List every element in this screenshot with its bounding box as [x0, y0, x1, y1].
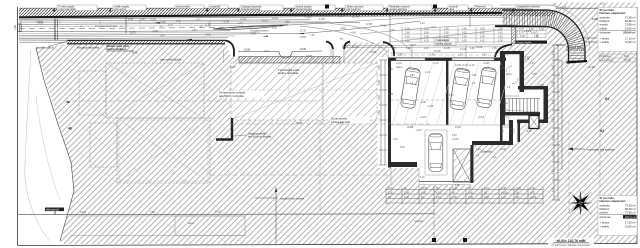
svg-text:2,80: 2,80 [192, 30, 197, 32]
svg-text:6,00: 6,00 [462, 39, 467, 42]
svg-text:+0,15: +0,15 [523, 58, 530, 61]
svg-text:2,35: 2,35 [468, 196, 473, 199]
left border line [17, 7, 19, 246]
entry labels [481, 73, 513, 154]
svg-text:4,25: 4,25 [160, 20, 166, 24]
verge marker triangles [53, 8, 514, 12]
upper court dim rows [517, 29, 546, 39]
building walls [388, 51, 548, 183]
svg-text:2,30: 2,30 [424, 48, 429, 50]
road name labels [36, 42, 138, 55]
svg-text:14,51: 14,51 [215, 211, 222, 214]
svg-text:10,08: 10,08 [36, 21, 43, 24]
parcel labels [600, 97, 609, 133]
svg-text:2,26: 2,26 [393, 139, 398, 141]
svg-text:2,28: 2,28 [458, 55, 463, 57]
garage labels [396, 64, 485, 129]
svg-text:17,16 m²: 17,16 m² [625, 221, 636, 225]
svg-text:1,40: 1,40 [501, 187, 506, 190]
legend extra lines below top box [598, 54, 637, 62]
svg-text:+0,45: +0,45 [420, 102, 427, 104]
site labels [218, 91, 370, 125]
svg-text:3,50: 3,50 [424, 27, 429, 30]
svg-text:1,00: 1,00 [484, 196, 489, 199]
svg-text:2,56: 2,56 [472, 75, 477, 77]
rect diagonals [106, 63, 377, 183]
svg-text:+1,25: +1,25 [150, 19, 157, 21]
svg-text:+1,34: +1,34 [240, 19, 247, 21]
svg-text:6,00: 6,00 [140, 18, 145, 21]
svg-text:44,96: 44,96 [250, 33, 256, 35]
svg-text:víznyelõ: víznyelõ [449, 6, 458, 9]
svg-text:1,10: 1,10 [425, 71, 430, 74]
svg-text:Elõsz.: Elõsz. [506, 73, 513, 76]
svg-text:12,06 m²: 12,06 m² [625, 40, 636, 44]
svg-text:4,20: 4,20 [424, 39, 429, 42]
svg-text:+1,25: +1,25 [508, 12, 515, 15]
svg-text:1,98: 1,98 [492, 48, 497, 50]
svg-text:6,00: 6,00 [130, 31, 136, 35]
svg-text:+0,03: +0,03 [452, 138, 459, 141]
svg-text:4,20: 4,20 [480, 39, 485, 42]
svg-text:5,00: 5,00 [132, 51, 138, 55]
svg-text:4,50: 4,50 [552, 187, 555, 192]
svg-text:5,40: 5,40 [468, 191, 473, 194]
svg-text:2,80: 2,80 [444, 35, 449, 38]
svg-text:3,50: 3,50 [405, 39, 410, 42]
svg-text:3,50: 3,50 [378, 110, 381, 115]
svg-text:237,0 m²: 237,0 m² [625, 215, 636, 219]
svg-text:1,50: 1,50 [482, 55, 487, 57]
top dimension chain rows [402, 27, 516, 43]
svg-text:89,68 m²: 89,68 m² [625, 19, 636, 23]
svg-text:4,10: 4,10 [436, 196, 441, 199]
svg-text:3,50: 3,50 [378, 95, 381, 100]
svg-text:±0,00= 110,76 mBf: ±0,00= 110,76 mBf [556, 239, 586, 243]
folyoka dark bar [516, 41, 548, 45]
svg-text:+1,34: +1,34 [352, 15, 360, 19]
upper road edge wall [19, 13, 502, 19]
svg-text:+0,05: +0,05 [407, 126, 414, 129]
building white main block [388, 57, 505, 145]
svg-text:4,20: 4,20 [444, 39, 449, 42]
property line right [599, 70, 601, 240]
svg-text:4,13: 4,13 [272, 28, 277, 30]
svg-text:4,50: 4,50 [552, 151, 555, 156]
svg-text:4,50: 4,50 [552, 135, 555, 140]
svg-text:-1,81*: -1,81* [318, 17, 326, 21]
svg-text:17,16 m²: 17,16 m² [625, 36, 636, 40]
svg-text:2,35: 2,35 [516, 187, 521, 190]
svg-text:4,13: 4,13 [264, 50, 269, 53]
svg-text:+ erkély: + erkély [600, 40, 610, 44]
svg-text:-0,45: -0,45 [526, 131, 532, 133]
svg-text:Forgalomtechnika: Forgalomtechnika [77, 46, 100, 50]
svg-text:73,98 m²: 73,98 m² [625, 23, 636, 27]
svg-text:épít mély sz.: épít mély sz. [114, 8, 127, 11]
svg-text:+1,25: +1,25 [222, 19, 230, 23]
wc fixtures [503, 117, 514, 134]
svg-text:12,30: 12,30 [272, 18, 278, 20]
svg-text:csapadékvíz elvezetés: csapadékvíz elvezetés [517, 6, 541, 9]
road direction arrows [154, 22, 304, 40]
svg-text:emelet: emelet [600, 23, 608, 27]
svg-text:6,10: 6,10 [372, 15, 377, 17]
svg-text:5,40: 5,40 [420, 177, 425, 179]
svg-text:4a: 4a [66, 100, 70, 104]
upper court walls [495, 26, 546, 28]
svg-text:+1,13: +1,13 [524, 29, 532, 33]
svg-text:kedés; újrarakás: kedés; újrarakás [278, 71, 299, 75]
ramp end cap [567, 61, 588, 63]
svg-text:6,00: 6,00 [424, 31, 429, 34]
terrace left vertical dim chain [322, 64, 324, 120]
svg-text:Zuhanyáll.: Zuhanyáll. [481, 151, 492, 154]
svg-text:0,54: 0,54 [160, 36, 165, 38]
svg-text:4,70: 4,70 [388, 187, 393, 190]
svg-text:házi emelet kontúr: házi emelet kontúr [160, 58, 181, 62]
site boundary left edge [36, 48, 74, 241]
top hatched verge strip [19, 8, 637, 16]
svg-text:4,50: 4,50 [552, 99, 555, 104]
svg-text:14,00: 14,00 [500, 149, 506, 151]
svg-text:-1,30: -1,30 [588, 65, 595, 69]
bottom-left dim labels [80, 211, 222, 214]
svg-text:-1,30: -1,30 [338, 16, 344, 18]
side path white strip [378, 57, 389, 168]
svg-text:4,50: 4,50 [552, 81, 555, 86]
building interior lines [391, 100, 505, 185]
svg-text:+1,13: +1,13 [305, 17, 312, 19]
svg-text:+ erkély: + erkély [600, 224, 610, 228]
svg-text:44,06: 44,06 [476, 46, 483, 49]
stone paving band [239, 57, 340, 64]
svg-text:4,25: 4,25 [196, 20, 201, 22]
legend box top right [598, 8, 637, 52]
svg-text:+4,45: +4,45 [350, 33, 357, 35]
svg-text:Telekhatár rendezés: Telekhatár rendezés [389, 6, 411, 9]
svg-text:5,6: 5,6 [500, 130, 504, 133]
basement outline rect A1 [79, 71, 106, 115]
svg-text:burkolt szegély: burkolt szegély [296, 6, 312, 9]
car court [429, 134, 443, 172]
svg-text:+0,07: +0,07 [416, 130, 423, 132]
svg-text:+3,10: +3,10 [430, 27, 437, 29]
svg-text:73,28 m²: 73,28 m² [625, 204, 636, 208]
svg-text:szomszéd ház kontúrja: szomszéd ház kontúrja [587, 148, 615, 152]
svg-text:3,50: 3,50 [444, 27, 449, 30]
svg-text:0,04*: 0,04* [410, 44, 416, 47]
right border line [636, 7, 638, 244]
svg-text:21,06 m²: 21,06 m² [625, 26, 636, 30]
svg-text:19,99: 19,99 [80, 211, 87, 214]
road annotation texts [38, 10, 456, 41]
svg-text:+0,95: +0,95 [538, 85, 545, 87]
svg-text:14,00: 14,00 [455, 126, 462, 129]
svg-text:+0,15: +0,15 [340, 28, 347, 30]
white dim area right of road [437, 26, 547, 45]
svg-text:4,10: 4,10 [484, 187, 489, 190]
svg-text:73,28 m²: 73,28 m² [625, 16, 636, 20]
svg-text:meglevo: meglevo [414, 220, 424, 223]
svg-text:1,98: 1,98 [534, 35, 539, 38]
contour line left 2 [36, 95, 60, 200]
svg-text:3,50: 3,50 [480, 27, 485, 30]
svg-text:összesen: összesen [600, 215, 612, 219]
svg-text:Hasznos alapterület:: Hasznos alapterület: [600, 199, 626, 203]
retaining wall hatched strip [512, 27, 516, 44]
turning path arcs [330, 17, 516, 42]
svg-text:6,00: 6,00 [498, 39, 503, 42]
svg-text:szegély átépítése: szegély átépítése [389, 8, 408, 11]
scattered annotation texts [188, 3, 606, 225]
svg-text:52%: 52% [624, 55, 630, 58]
dashed guide verticals [224, 50, 321, 243]
svg-text:8,00: 8,00 [338, 122, 343, 125]
building white lower court [391, 125, 474, 168]
svg-text:burkolat szélesség: burkolat szélesség [241, 8, 261, 11]
light air shaft wall [216, 118, 272, 140]
svg-text:5,40: 5,40 [404, 196, 409, 199]
building white stair zone [500, 86, 546, 123]
walkway lines above building [331, 44, 502, 57]
svg-text:5,08: 5,08 [406, 48, 411, 50]
svg-text:földszint: földszint [600, 207, 610, 211]
svg-text:2,80: 2,80 [462, 27, 467, 30]
svg-text:földszint: földszint [600, 19, 610, 23]
svg-text:Gép.: Gép. [503, 102, 509, 105]
svg-text:44,06: 44,06 [380, 26, 386, 28]
long dashed horizontals [210, 124, 430, 175]
svg-text:+12,30: +12,30 [420, 13, 429, 17]
svg-text:12,06 m²: 12,06 m² [625, 224, 636, 228]
svg-text:2,80: 2,80 [405, 31, 410, 34]
svg-text:14,05: 14,05 [444, 48, 450, 50]
svg-text:6,00: 6,00 [480, 31, 485, 34]
north compass star [569, 191, 593, 215]
svg-text:Gyalogos kapcsolat: Gyalogos kapcsolat [241, 6, 261, 9]
svg-text:57,: 57, [340, 37, 344, 41]
ramp outer guide arc [500, 5, 590, 50]
svg-text:3,50: 3,50 [462, 35, 467, 38]
svg-text:4,50: 4,50 [552, 65, 555, 70]
svg-text:Tereprend.: Tereprend. [475, 6, 486, 9]
svg-text:8,50: 8,50 [232, 29, 237, 31]
svg-text:+3,10: +3,10 [560, 6, 567, 9]
extra dim texts [392, 48, 545, 187]
svg-text:beépítettség: beépítettség [599, 59, 613, 62]
svg-text:szuterén: szuterén [600, 16, 611, 20]
svg-text:(*) jelû burkol. hálózati mély: (*) jelû burkol. hálózati mélységhez [552, 244, 592, 247]
svg-text:2,04: 2,04 [420, 23, 425, 25]
hatch area around ramp top-right [502, 3, 637, 43]
svg-text:±0,00 szint felett: ±0,00 szint felett [566, 49, 584, 52]
driveway label box [434, 38, 456, 46]
svg-text:14,05 +0,00 +0,10: 14,05 +0,00 +0,10 [455, 64, 475, 67]
svg-text:14,00: 14,00 [530, 196, 537, 199]
building white right wing [500, 51, 524, 96]
driveway curb returns [326, 42, 512, 58]
neighbour house label [568, 147, 615, 151]
svg-text:6,00: 6,00 [285, 22, 290, 24]
road lane lines [19, 20, 420, 39]
section line vertical [432, 186, 467, 242]
svg-text:14,00: 14,00 [460, 48, 467, 51]
svg-text:2,80: 2,80 [498, 27, 503, 30]
basement outline rect B2 [117, 118, 210, 183]
svg-text:73,98 m²: 73,98 m² [625, 211, 636, 215]
patio room hatch [453, 149, 471, 182]
roof overhang dashed [385, 54, 509, 56]
corner drop verticals [388, 186, 543, 189]
svg-text:3,15: 3,15 [168, 25, 173, 27]
svg-text:4,70: 4,70 [530, 191, 535, 194]
neighbour house outline bottom [70, 216, 245, 236]
car garage2 left [449, 68, 470, 111]
svg-text:Forgalomtechn.: Forgalomtechn. [250, 29, 270, 33]
lower room walls [500, 95, 520, 142]
svg-text:57,06: 57,06 [434, 50, 441, 53]
svg-text:89,68 m²: 89,68 m² [625, 207, 636, 211]
svg-text:+4,45: +4,45 [448, 10, 456, 14]
bottom border line [18, 244, 637, 246]
svg-text:+ terasz: + terasz [600, 221, 610, 225]
svg-text:0,54*: 0,54* [306, 55, 312, 58]
contour line left [25, 50, 50, 241]
svg-text:5,06: 5,06 [520, 35, 525, 38]
svg-text:14,00: 14,00 [421, 187, 428, 190]
svg-text:+0,08: +0,08 [483, 63, 490, 65]
svg-text:6,00: 6,00 [444, 31, 449, 34]
svg-text:medrû szakasz: medrû szakasz [106, 47, 127, 51]
svg-text:Gázm.: Gázm. [396, 66, 403, 69]
svg-text:2,80: 2,80 [424, 35, 429, 38]
svg-text:3,00: 3,00 [452, 135, 457, 137]
svg-text:4,50: 4,50 [552, 117, 555, 122]
svg-text:1,50: 1,50 [14, 25, 17, 30]
basement outline rect B1 [90, 123, 117, 167]
svg-text:2,55: 2,55 [410, 75, 415, 77]
car garage1 [400, 67, 421, 109]
svg-text:4,50: 4,50 [552, 169, 555, 174]
driveway apron white [226, 43, 345, 57]
legend arrows left [584, 38, 597, 42]
apron curb line with bump [238, 51, 322, 58]
svg-text:57,06: 57,06 [300, 31, 306, 33]
svg-text:3,50: 3,50 [498, 35, 503, 38]
svg-text:1,00: 1,00 [530, 187, 535, 190]
svg-text:nyílt medrû sz.: nyílt medrû sz. [346, 8, 361, 11]
svg-text:kiemelt szegély: kiemelt szegély [296, 8, 313, 11]
svg-text:meglévõ fono kerítés: meglévõ fono kerítés [280, 196, 305, 200]
svg-text:Juhász utca árok: Juhász utca árok [346, 6, 364, 9]
svg-text:1,40: 1,40 [452, 196, 457, 199]
verge label boxes [57, 5, 556, 11]
svg-text:zöldfelület: zöldfelület [599, 55, 611, 58]
svg-text:K1: K1 [605, 97, 609, 101]
svg-text:4,70: 4,70 [501, 196, 506, 199]
svg-text:10,56: 10,56 [244, 49, 251, 52]
svg-text:K2: K2 [600, 129, 604, 133]
stair hatch [503, 99, 540, 113]
svg-text:5,65: 5,65 [388, 68, 393, 71]
section marks top [325, 5, 437, 9]
svg-text:5,40: 5,40 [452, 187, 457, 190]
basement outline rect A2 [106, 63, 204, 118]
svg-text:+ terasz: + terasz [600, 36, 610, 40]
svg-text:+0,10: +0,10 [433, 63, 440, 65]
site hatch area [36, 43, 637, 245]
svg-text:14,00: 14,00 [352, 46, 359, 49]
svg-text:terv B tömör sávban: terv B tömör sávban [248, 135, 272, 139]
bottom dimension chains [386, 188, 543, 205]
svg-text:57,: 57, [208, 24, 212, 26]
right vertical dim chain [552, 45, 562, 200]
svg-text:4,20: 4,20 [405, 35, 410, 38]
driveway turning arcs [300, 24, 413, 54]
garage floor faint lines [393, 62, 512, 124]
dim line bottom left [18, 213, 434, 216]
svg-text:4,25: 4,25 [388, 93, 393, 96]
svg-text:1,75: 1,75 [392, 48, 397, 50]
svg-text:0,04: 0,04 [390, 30, 395, 32]
svg-text:4,06: 4,06 [470, 48, 475, 50]
svg-text:2,00: 2,00 [128, 18, 133, 21]
svg-text:eltem: eltem [188, 222, 194, 225]
svg-text:6,00: 6,00 [405, 27, 410, 30]
4a reference line [66, 100, 320, 104]
traffic island [213, 25, 288, 30]
svg-text:+0,04: +0,04 [420, 116, 427, 119]
svg-text:+0,02: +0,02 [478, 116, 485, 119]
svg-text:10,90: 10,90 [300, 48, 307, 51]
svg-text:1,00: 1,00 [388, 191, 393, 194]
road crossing verticals [390, 14, 470, 43]
svg-text:Aszfaltozott út: Aszfaltozott út [36, 46, 54, 50]
road micro texts [150, 15, 437, 37]
svg-text:4,50: 4,50 [532, 73, 537, 76]
svg-text:3,40: 3,40 [430, 55, 435, 57]
svg-text:5,00: 5,00 [400, 147, 405, 149]
svg-text:4,00: 4,00 [262, 19, 268, 23]
lift shaft box [529, 116, 539, 129]
svg-text:elbontandó: elbontandó [46, 207, 59, 211]
svg-text:7,96: 7,96 [150, 211, 155, 214]
curved ramp band [502, 10, 585, 62]
svg-text:a heti 0-ás pótlás: a heti 0-ás pótlás [58, 8, 76, 11]
flare verticals [333, 49, 344, 63]
elbontando label [45, 207, 64, 214]
svg-text:4b: 4b [68, 127, 72, 131]
car garage2 right [476, 67, 497, 109]
bottom level note [548, 238, 594, 247]
svg-text:tetõtér: tetõtér [600, 26, 608, 30]
svg-text:2,80: 2,80 [480, 35, 485, 38]
svg-text:44,96: 44,96 [370, 51, 377, 54]
svg-text:4,20: 4,20 [462, 31, 467, 34]
lower verge hatched strip [67, 41, 225, 44]
left vertical dim chain [379, 60, 387, 165]
svg-text:+0,12: +0,12 [396, 63, 403, 65]
svg-text:24,9%: 24,9% [624, 59, 632, 62]
svg-text:0,54*: 0,54* [300, 35, 307, 39]
svg-text:Hasznos alapterület:: Hasznos alapterület: [600, 11, 626, 15]
svg-text:1,35: 1,35 [530, 63, 535, 65]
svg-text:7,45: 7,45 [310, 35, 315, 37]
old fence label [255, 196, 305, 200]
svg-text:5,55: 5,55 [449, 95, 454, 97]
svg-text:0,44: 0,44 [238, 23, 243, 25]
